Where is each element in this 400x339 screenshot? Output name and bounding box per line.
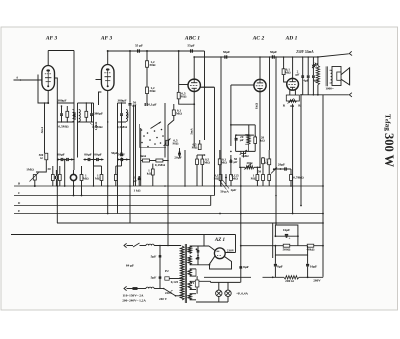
wire IF3 bottom: [118, 121, 127, 123]
svg-text:80μF: 80μF: [84, 152, 91, 156]
svg-text:380μF: 380μF: [117, 98, 126, 102]
wire rail to out terminal: [317, 54, 349, 58]
pilot lamp P left: [216, 282, 222, 296]
resistor 1MΩ b: [80, 166, 89, 186]
capacitor 5μF det: [133, 176, 141, 187]
tube label ABC 1 (V3): [184, 36, 200, 42]
svg-text:μF: μF: [296, 73, 300, 77]
svg-text:MΩ: MΩ: [192, 146, 198, 150]
label 1kΩ rotated: [254, 103, 258, 110]
capacitor 16μF top: [283, 228, 291, 241]
resistor 0,5MΩ IF2: [85, 102, 88, 122]
wire IF3 left vert: [117, 103, 119, 214]
wire pilot bottoms: [196, 297, 228, 303]
svg-text:8μF: 8μF: [243, 265, 249, 269]
svg-text:250V 55mA: 250V 55mA: [295, 50, 314, 54]
wire T1 sec bottom lead: [190, 256, 215, 265]
transformer T1 core: [185, 244, 186, 303]
heater wire y282: [211, 281, 241, 282]
capacitor 80μF pair 1: [57, 152, 73, 161]
resistor 1MΩ c: [95, 166, 103, 186]
label 2μF below bus: [231, 188, 237, 192]
electrolytic can: [70, 170, 76, 186]
bus D wire: [14, 196, 211, 206]
resistor 500Ω (V1 cathode): [39, 153, 48, 160]
wire x44.5 vertical: [44, 102, 46, 153]
svg-text:5μF: 5μF: [151, 254, 157, 258]
svg-text:55 μF: 55 μF: [135, 44, 143, 48]
svg-text:AC 2: AC 2: [252, 36, 265, 42]
svg-text:ABC 1: ABC 1: [184, 36, 200, 42]
fuse P2: [165, 269, 181, 284]
svg-text:84 μF: 84 μF: [126, 264, 134, 268]
label mains range 2: [122, 299, 146, 303]
loudspeaker LS: [332, 67, 350, 86]
svg-text:5μF: 5μF: [151, 276, 157, 280]
svg-text:0,78kΩ: 0,78kΩ: [293, 176, 304, 180]
svg-text:0,5MΩ: 0,5MΩ: [117, 125, 127, 129]
wire bus-E drop to line F: [56, 186, 58, 223]
svg-text:50μF: 50μF: [270, 50, 277, 54]
wire G to T1: [196, 235, 204, 247]
terminal out bottom: [349, 93, 352, 97]
row y177 resistor c: [268, 175, 271, 187]
svg-text:0,098: 0,098: [73, 112, 77, 120]
label 1000~: [325, 87, 334, 91]
row y177 resistor a: [214, 174, 222, 187]
svg-text:1,5kΩ: 1,5kΩ: [94, 121, 98, 130]
tube V3 ABC 1: [188, 79, 200, 91]
svg-text:0,5MΩ: 0,5MΩ: [58, 125, 68, 129]
svg-text:AZ 1: AZ 1: [214, 238, 225, 243]
voltage selector taps: [165, 290, 181, 296]
fuse P1: [191, 276, 199, 294]
meter 50μA dashed: [220, 180, 229, 194]
label 0,5MΩ IF1: [58, 125, 68, 129]
tube label AF 3 (V1): [45, 36, 58, 42]
label 240V: [159, 297, 168, 301]
wire V1 cathode drop: [47, 91, 49, 105]
svg-text:MΩ: MΩ: [221, 161, 227, 165]
tube label AC 2 (V4): [252, 36, 265, 42]
potentiometer 1MΩ (vol): [26, 168, 38, 182]
svg-text:MΩ: MΩ: [232, 177, 238, 181]
resistor 0,1MΩ agc: [218, 150, 227, 174]
svg-text:MΩ: MΩ: [251, 177, 257, 181]
resistor 20kΩ osc: [254, 135, 265, 151]
svg-text:55μF: 55μF: [187, 44, 194, 48]
wire pot to bus B: [34, 180, 36, 187]
resistor 50kΩ upper: [262, 157, 265, 175]
capacitor 8μF dec: [274, 255, 283, 277]
svg-text:80μF: 80μF: [57, 152, 64, 156]
coil 0,06 IF3: [126, 110, 130, 122]
mains choke b: [146, 287, 164, 288]
wire 28Ω leads: [239, 158, 260, 169]
wire x168 vertical: [167, 125, 169, 246]
capacitor 20μF grid AD1: [274, 162, 291, 170]
wire x221 drop: [220, 56, 222, 187]
wire stage1 vertical x74: [73, 51, 75, 158]
svg-text:280V: 280V: [313, 279, 321, 283]
svg-text:B: B: [17, 182, 20, 186]
wire x178.7 vertical: [178, 50, 180, 92]
capacitor tone a: [303, 56, 309, 95]
capacitor 20μF osc: [235, 134, 244, 142]
mains terminal L1: [124, 243, 127, 247]
capacitor 0,1μF block: [145, 103, 157, 107]
tube V1 AF 3: [42, 66, 55, 91]
capacitor 50μF IF3: [111, 122, 123, 156]
capacitor 50μF pair 3: [117, 152, 128, 161]
wire V6 anode out: [209, 253, 236, 270]
wire pair3 stubs: [118, 159, 131, 161]
wire top coupling: [108, 51, 205, 140]
svg-text:50μF: 50μF: [223, 50, 230, 54]
svg-text:380μF: 380μF: [94, 112, 103, 116]
tube V4 AC 2: [254, 79, 266, 91]
svg-text:80μF: 80μF: [94, 152, 101, 156]
svg-text:2μF: 2μF: [231, 188, 237, 192]
transformer T1 primary: [180, 246, 184, 300]
resistor 0,5MΩ right pair b: [201, 155, 210, 186]
wire bottom out rail: [301, 94, 349, 96]
resistor 200Ω bias: [284, 276, 299, 283]
svg-text:20μF: 20μF: [278, 162, 285, 166]
label +P 0,4A: [236, 292, 248, 296]
resistor 1,2MΩ lower: [146, 86, 156, 94]
svg-text:MΩ: MΩ: [204, 161, 210, 165]
wire V2 cathode long: [107, 103, 108, 154]
capacitor 16μF dec: [306, 255, 317, 277]
svg-text:380μF: 380μF: [57, 99, 66, 103]
bus E wire: [14, 213, 324, 215]
capacitor 380μF IF3: [117, 98, 126, 122]
svg-text:5mA: 5mA: [189, 127, 193, 134]
wire mains vert x160: [159, 245, 161, 289]
label 1kΩ below B: [134, 189, 141, 193]
row y177 resistor 0,78kΩ: [290, 169, 304, 187]
capacitor 380μF IF1: [57, 99, 66, 123]
pilot lamp P right: [225, 282, 231, 296]
transformer T1 winding 6V: [188, 269, 191, 276]
svg-text:AF 3: AF 3: [45, 36, 58, 42]
wire V5 bias to E bus: [292, 104, 294, 215]
wire V2 anode to top wire: [107, 50, 109, 65]
bus C wire: [14, 185, 215, 195]
wire T1 6V leads: [190, 269, 196, 276]
svg-text:4μF: 4μF: [303, 79, 309, 83]
svg-text:kΩ: kΩ: [260, 139, 265, 143]
wire x130 vertical upper: [129, 50, 131, 103]
svg-text:AF 3: AF 3: [100, 36, 113, 42]
mains choke a: [146, 244, 181, 245]
junction dots bus B left: [57, 185, 131, 187]
resistor 28Ω zigzag: [244, 161, 254, 170]
bias network box AD1: [283, 95, 302, 108]
svg-text:220V: 220V: [165, 291, 173, 295]
svg-text:230V: 230V: [227, 249, 235, 253]
wire choke top: [317, 57, 319, 66]
wire 80μF pair2 stubs: [84, 159, 104, 186]
wire IF2 top: [78, 102, 94, 104]
svg-text:kΩ: kΩ: [147, 171, 152, 175]
wire resistor to pot: [36, 160, 46, 172]
line F wire: [57, 222, 323, 224]
row y177 resistor 50kΩ: [258, 170, 265, 187]
svg-text:E: E: [17, 209, 20, 213]
svg-text:1kΩ: 1kΩ: [254, 103, 258, 110]
antenna input wire: [14, 75, 48, 80]
wire 200Ω to feed: [299, 276, 323, 278]
resistor 1kΩ det: [147, 164, 154, 186]
svg-text:Tefag: Tefag: [384, 114, 392, 131]
svg-text:500Ω: 500Ω: [283, 247, 291, 251]
svg-text:8μF: 8μF: [277, 264, 283, 268]
wire V2 grid left: [96, 79, 102, 81]
resistor box x115.8: [114, 166, 117, 186]
wire V5 cathode legs: [290, 90, 296, 96]
wire V1 grid box left: [38, 75, 48, 104]
svg-text:MΩ: MΩ: [150, 63, 156, 67]
wire x104 link: [94, 92, 102, 130]
svg-text:+P, 0,4A: +P, 0,4A: [236, 292, 248, 296]
wire V6 HT to filter: [240, 167, 242, 282]
bias wire y277: [204, 276, 284, 278]
capacitor 380μF IF2: [90, 103, 103, 122]
tube V6 AZ 1 label: [214, 238, 225, 243]
resistor 500Ω feed: [283, 244, 291, 251]
wire V4 cathode down: [259, 92, 261, 169]
output choke winding: [316, 66, 319, 85]
wire IF1 top: [58, 102, 75, 104]
wire osc frame drop: [243, 151, 245, 157]
wire x199.7 up: [200, 86, 214, 195]
smoothing block frame: [275, 225, 298, 246]
svg-text:MΩ: MΩ: [83, 177, 89, 181]
resistor 1,2MΩ upper: [146, 50, 156, 67]
wire V3 grid left: [179, 84, 188, 86]
svg-text:1 kΩ: 1 kΩ: [134, 189, 141, 193]
capacitor 5μF line b: [151, 276, 162, 280]
potentiometer tone: [271, 168, 277, 174]
svg-text:50 μA: 50 μA: [220, 190, 229, 194]
capacitor 2μF AD1: [301, 56, 304, 95]
wire V2 cathode to E: [107, 154, 109, 215]
terminal out top: [349, 51, 352, 55]
svg-text:300 W: 300 W: [382, 133, 396, 168]
wire V1 screen right: [55, 78, 59, 187]
wire osc outer frame: [230, 124, 255, 137]
svg-text:μF: μF: [234, 160, 238, 164]
label 0,5MΩ IF3: [117, 125, 127, 129]
resistor 40kΩ feed: [307, 244, 315, 251]
svg-text:50μF: 50μF: [111, 151, 118, 155]
svg-text:110–150V~ 2A: 110–150V~ 2A: [123, 293, 144, 297]
wire C riser x276: [275, 196, 277, 226]
band switch wiper arm: [151, 122, 162, 129]
wire IF3 top: [118, 102, 127, 104]
voltage selector arm: [163, 288, 176, 296]
band switch S1 contact field: [140, 124, 167, 148]
svg-text:0,1MΩ: 0,1MΩ: [155, 163, 165, 167]
decoupling frame: [275, 245, 308, 255]
node B label: [17, 182, 20, 186]
wire riser x81.5 to C: [81, 186, 83, 196]
svg-text:MΩ: MΩ: [95, 177, 101, 181]
capacitor 55μF coupling b: [187, 44, 194, 53]
capacitor block (AVC): [55, 170, 58, 186]
wire x165 vertical: [164, 103, 166, 158]
wire AD1 grid link: [284, 80, 287, 82]
svg-text:16μF: 16μF: [283, 228, 290, 232]
resistor 1kΩ right pair a: [196, 155, 199, 186]
wire x147 down: [146, 94, 148, 105]
svg-text:16μF: 16μF: [310, 264, 317, 268]
potentiometer osc padder: [240, 150, 249, 158]
svg-text:MΩ: MΩ: [150, 89, 156, 93]
wire shield pair b: [135, 105, 137, 187]
svg-text:P1: P1: [191, 281, 195, 285]
title Tefag 300 W (rotated): [382, 114, 396, 168]
bus B wire: [14, 185, 323, 187]
tube label AD 1 (V5): [285, 36, 298, 42]
tube V6 AZ 1: [214, 248, 225, 259]
wire E riser x117.5: [0, 0, 1, 1]
svg-text:0,1μF: 0,1μF: [148, 103, 156, 107]
resistor 0,5MΩ V3 top: [192, 140, 201, 150]
svg-text:0,125: 0,125: [171, 280, 179, 284]
capacitor 80μF pair 2: [84, 152, 103, 161]
svg-text:0,06: 0,06: [126, 112, 130, 118]
wire V3 output right: [200, 86, 214, 88]
transformer T1 secondary HT lower: [188, 256, 191, 265]
fuse F1: [127, 287, 147, 290]
wire V3 cathode down: [193, 92, 195, 148]
label 230V: [226, 249, 235, 253]
svg-text:200–240V~ 1,2A: 200–240V~ 1,2A: [122, 299, 146, 303]
svg-text:A: A: [15, 75, 18, 79]
wire right feed x323: [322, 95, 324, 276]
capacitor 55μF coupling a: [135, 44, 143, 53]
svg-text:μF: μF: [240, 138, 244, 142]
svg-text:MΩ: MΩ: [181, 95, 187, 99]
wire HT y245.7: [241, 245, 323, 247]
resistor 0,1MΩ h: [155, 159, 165, 167]
svg-text:1MΩ: 1MΩ: [26, 168, 34, 172]
wire 16μF node: [275, 235, 298, 237]
wire D end join: [300, 205, 302, 207]
wire x276 drop: [275, 56, 277, 196]
output transformer secondary: [330, 70, 333, 83]
wire T1 sec top lead: [190, 246, 215, 250]
resistor 0,5MΩ IF1: [66, 106, 69, 122]
row y177 resistor 1MΩ: [251, 167, 259, 187]
wire osc to AC2 grid: [230, 85, 254, 152]
wire x140.7 vertical: [140, 128, 142, 186]
svg-text:30: 30: [47, 167, 51, 171]
wire V3 anode top: [193, 56, 195, 79]
wire shield pair a: [133, 105, 135, 187]
svg-text:1MΩ: 1MΩ: [241, 154, 249, 158]
label 250V 55mA: [295, 50, 314, 54]
capacitor 50μF rail b: [270, 50, 277, 59]
node E label: [17, 209, 221, 214]
wire IF1 bottom: [58, 121, 75, 122]
capacitor 8μF filter1: [239, 265, 248, 269]
svg-text:4μF: 4μF: [313, 79, 319, 83]
wire x74 to can: [73, 158, 74, 171]
capacitor filament a: [197, 246, 200, 255]
svg-text:50: 50: [258, 170, 262, 174]
coil 0,098 IF2: [73, 110, 80, 122]
svg-text:MΩ: MΩ: [173, 142, 179, 146]
transformer T1 winding pilots: [188, 281, 191, 289]
label 84μF: [126, 264, 134, 268]
wire 80μF pair1 stubs: [57, 159, 74, 187]
svg-text:240 V: 240 V: [159, 297, 168, 301]
wire riser x73.5 to C: [73, 186, 75, 196]
svg-text:P2: P2: [165, 269, 169, 273]
label 5mA rotated (det): [189, 127, 193, 134]
coil osc tank: [245, 135, 250, 152]
wire T1 heater leads: [190, 294, 196, 300]
capacitor 50μF agc: [230, 155, 238, 174]
wire E riser x131: [130, 214, 132, 224]
resistor diag out: [311, 62, 318, 68]
svg-text:200 Ω: 200 Ω: [285, 279, 294, 283]
wire pair join top: [197, 154, 205, 156]
resistor 1MΩ a: [58, 166, 61, 186]
resistor 30kΩ: [47, 166, 54, 186]
line G wire: [11, 235, 236, 253]
potentiometer 0,5MΩ (reaction): [164, 139, 179, 147]
svg-text:1000~: 1000~: [325, 87, 334, 91]
wire top right rail: [194, 56, 318, 58]
wire x301 vertical: [300, 94, 302, 206]
label mains range 1: [123, 293, 144, 297]
junction dots buses: [164, 185, 186, 187]
capacitor 20μF AVC: [174, 148, 181, 160]
capacitor tone b: [312, 57, 319, 96]
resistor 0,1MΩ AD1 grid: [282, 56, 291, 80]
wire IF2 right vert: [93, 103, 95, 158]
node D label: [17, 201, 21, 205]
label 5mA rotated: [40, 126, 44, 133]
output transformer core: [326, 66, 328, 86]
wire choke bottom: [317, 85, 319, 96]
wire IF2 bottom: [78, 121, 94, 123]
svg-text:MΩ: MΩ: [176, 112, 182, 116]
wire IF2 left vert: [77, 103, 79, 158]
label 0,5MΩ IF2: [90, 123, 103, 129]
wire x178.7 lower: [179, 99, 195, 105]
transformer T1 secondary HT upper: [188, 246, 191, 254]
resistor 0,5MΩ V3 grid: [177, 92, 187, 99]
wire x93.5-x101.5 links: [93, 158, 102, 167]
tube V2 AF 3: [101, 65, 114, 91]
coil 0,08 IF1: [72, 110, 76, 122]
wire osc top frame: [236, 135, 254, 151]
wire 1,2MΩ link: [146, 67, 148, 87]
row y177 resistor b: [230, 174, 239, 187]
svg-text:MΩ: MΩ: [285, 71, 291, 75]
wire x269.5 drop: [269, 56, 271, 150]
node C label: [18, 191, 21, 195]
transformer T1 winding heater: [188, 294, 191, 300]
resistor 5kΩ: [140, 154, 150, 162]
mains terminal L2: [124, 286, 127, 290]
